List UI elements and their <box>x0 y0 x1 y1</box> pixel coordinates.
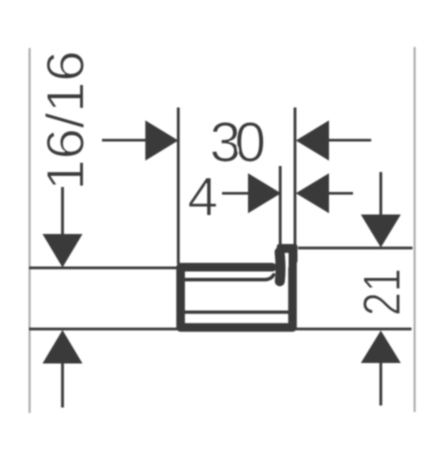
right boundary line <box>414 47 416 412</box>
16/16 dimension up arrowhead <box>43 330 83 364</box>
21 dimension up arrowhead <box>361 331 401 364</box>
21 dimension up arrow shaft <box>379 363 382 406</box>
inner shelf line <box>185 311 291 314</box>
extension line left of 4 dimension <box>279 166 282 245</box>
21 dimension down arrowhead <box>361 215 401 248</box>
glass slot lip line <box>185 275 274 280</box>
svg-text:4: 4 <box>188 165 219 227</box>
lower wall line <box>29 328 412 331</box>
glass retaining hook <box>275 252 286 281</box>
30 dimension right arrowhead <box>296 120 329 160</box>
left boundary line <box>29 48 31 413</box>
extension line right of 30 dimension <box>294 108 297 246</box>
upper-right wall line <box>298 247 413 250</box>
30 dimension left arrow tail <box>102 139 147 142</box>
profile mounting boss <box>277 244 298 264</box>
upper-left wall line <box>29 267 177 270</box>
4 dimension left arrow tail <box>222 192 250 195</box>
svg-text:16/16: 16/16 <box>36 50 95 190</box>
16/16 dimension up arrow shaft <box>61 363 64 408</box>
16/16 dimension down arrowhead <box>43 234 83 268</box>
svg-text:21: 21 <box>353 268 412 316</box>
svg-text:30: 30 <box>210 111 265 174</box>
16/16 dimension down arrow shaft <box>61 187 64 235</box>
4 dimension left arrowhead <box>248 173 281 213</box>
21 dimension down arrow shaft <box>379 172 382 216</box>
profile shell (left wall, top bar, bottom bar, right wall) <box>181 252 293 327</box>
30 dimension right arrow tail <box>329 139 371 142</box>
extension line left of 30 dimension <box>177 108 180 265</box>
30 dimension left arrowhead <box>145 120 178 160</box>
4 dimension right arrowhead <box>296 173 329 213</box>
4 dimension right arrow tail <box>329 192 353 195</box>
boss slit <box>284 253 288 267</box>
